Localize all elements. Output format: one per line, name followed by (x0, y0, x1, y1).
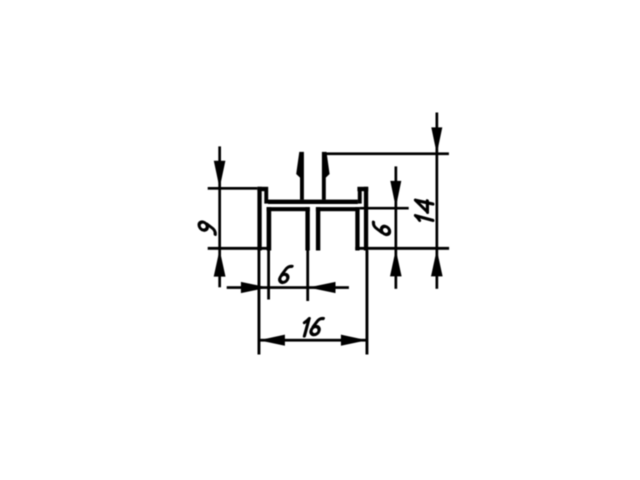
dimension line right 6 (395, 166, 398, 288)
arrow 9 top (214, 161, 226, 189)
extension line top of 9 (208, 187, 258, 190)
dimension line 9 (218, 146, 221, 287)
profile left channel wall B (267, 207, 272, 250)
arrow 14 bottom (431, 250, 443, 277)
arrow lower 6 right (308, 282, 335, 293)
dimension line 14 (436, 113, 439, 289)
dimension text 16 digit 6 (310, 319, 323, 335)
profile outer right skirt wall (364, 187, 368, 251)
profile center wall C (305, 207, 309, 250)
arrow right 6 bottom (390, 250, 402, 277)
profile center wall D (316, 207, 320, 250)
dimension text right 6 (rotated) (373, 222, 389, 235)
profile web bottom line left segment (267, 207, 310, 211)
extension line top of right 6 (360, 207, 409, 210)
arrow lower 6 left (241, 282, 268, 293)
profile left hook inner wall (264, 191, 268, 204)
dimension text 14 digit 1 (rotated) (416, 216, 433, 223)
profile outer left skirt wall (257, 187, 261, 251)
profile right hook inner wall (358, 191, 362, 204)
profile barbed fin 2 (322, 152, 330, 200)
arrow 14 top (431, 127, 442, 153)
extension line 6 lower right (306, 251, 309, 302)
arrow 9 bottom (214, 250, 226, 277)
profile web bottom line right segment (316, 207, 360, 211)
extension line bottom right (355, 247, 449, 250)
extension line 16 right (366, 251, 369, 355)
dimension line lower 6 (227, 286, 349, 289)
extension line bottom left (208, 247, 270, 250)
extension line 6 lower left (267, 251, 270, 300)
dimension text lower 6 (279, 266, 292, 282)
dimension text 16 digit 1 (302, 319, 309, 336)
profile web top line (268, 200, 358, 204)
arrow 16 left (259, 335, 285, 346)
profile barbed fin 1 (296, 152, 304, 200)
dimension text 14 digit 4 (rotated) (416, 198, 433, 213)
profile right channel wall E (355, 207, 359, 250)
extension line 16 left (258, 251, 261, 355)
dimension text 9 (rotated) (199, 221, 215, 234)
arrow 16 right (341, 335, 367, 346)
profile top cap right hook (357, 187, 368, 191)
extension line top of 14 (326, 152, 449, 155)
arrow right 6 top (390, 181, 401, 208)
profile top cap left hook (257, 187, 268, 191)
dimension line 16 (259, 339, 367, 342)
